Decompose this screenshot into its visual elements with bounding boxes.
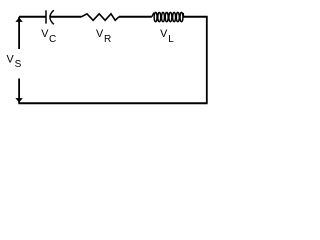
wire bottom — [18, 102, 207, 104]
arrowhead V_S down — [15, 98, 22, 102]
capacitor C1 flat plate (label V_C) — [45, 10, 47, 23]
wire capacitor to resistor — [50, 16, 81, 18]
resistor R1 zigzag (label V_R) — [81, 14, 119, 20]
svg-text:C: C — [49, 34, 56, 45]
capacitor C1 curved plate — [50, 10, 54, 24]
svg-text:V: V — [41, 28, 49, 40]
svg-text:V: V — [7, 53, 15, 65]
svg-text:L: L — [168, 34, 174, 45]
inductor L1 coil (label V_L) — [152, 12, 184, 21]
svg-text:S: S — [15, 59, 22, 70]
wire right edge — [206, 16, 208, 103]
wire left upper segment (source V_S) — [18, 17, 20, 49]
wire left lower segment (source V_S) — [18, 79, 20, 104]
wire top-left (source node to capacitor) — [19, 16, 46, 18]
wire inductor to top-right corner — [184, 16, 208, 18]
svg-text:R: R — [104, 34, 111, 45]
arrowhead V_S up — [15, 18, 22, 22]
svg-text:V: V — [96, 28, 104, 40]
svg-text:V: V — [160, 28, 168, 40]
wire resistor to inductor — [119, 16, 152, 18]
